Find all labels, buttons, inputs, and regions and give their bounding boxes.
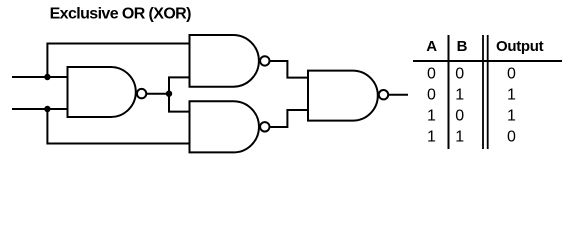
- wire U3 output to U4 bottom input: [270, 110, 308, 127]
- svg-text:1: 1: [455, 129, 464, 146]
- wire B branch to U3 bottom input: [47, 109, 189, 144]
- wire A branch to U2 top input: [47, 44, 189, 78]
- svg-text:1: 1: [507, 108, 516, 125]
- svg-text:0: 0: [427, 87, 436, 104]
- truth table header row: [426, 38, 543, 55]
- svg-text:0: 0: [455, 108, 464, 125]
- svg-text:1: 1: [427, 108, 436, 125]
- svg-text:A: A: [426, 38, 437, 55]
- svg-text:Output: Output: [496, 38, 544, 55]
- output wire: [389, 94, 409, 96]
- truth table header underline: [413, 60, 562, 62]
- truth table row 3: 1 0 1: [427, 108, 516, 125]
- svg-text:1: 1: [507, 87, 516, 104]
- wire N1 to U2 bottom input: [169, 77, 190, 93]
- wire U1 output to node N1: [147, 93, 170, 95]
- nand gate U3: [190, 101, 270, 152]
- svg-text:0: 0: [427, 66, 436, 83]
- svg-text:B: B: [457, 38, 468, 55]
- svg-text:0: 0: [507, 66, 516, 83]
- svg-text:1: 1: [427, 129, 436, 146]
- truth table double separator B||Output: [483, 35, 488, 149]
- truth table row 2: 0 1 1: [427, 87, 516, 104]
- input wire A: [12, 76, 68, 78]
- svg-text:1: 1: [455, 87, 464, 104]
- input wire B: [12, 108, 68, 110]
- node B junction dot: [44, 106, 50, 112]
- truth table column separator A|B: [448, 35, 450, 149]
- truth table row 4: 1 1 0: [427, 129, 516, 146]
- node N1 junction dot: [166, 91, 172, 97]
- nand gate U4: [308, 71, 388, 121]
- svg-text:Exclusive OR (XOR): Exclusive OR (XOR): [50, 6, 192, 23]
- svg-text:0: 0: [507, 129, 516, 146]
- svg-text:0: 0: [455, 66, 464, 83]
- nand gate U1: [68, 67, 147, 117]
- nand gate U2: [190, 35, 270, 87]
- node A junction dot: [44, 74, 50, 80]
- wire N1 to U3 top input: [169, 94, 190, 112]
- truth table row 1: 0 0 0: [427, 66, 516, 83]
- wire U2 output to U4 top input: [270, 61, 308, 78]
